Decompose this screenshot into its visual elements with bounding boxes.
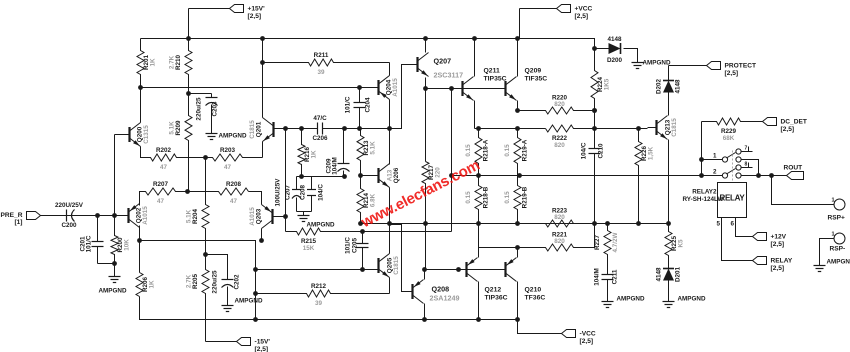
wire driver base row (426, 88, 505, 90)
wire Q206 collector (389, 129, 391, 165)
junction rail129 left end (476, 126, 481, 131)
wire bottom rail -VCC (140, 297, 520, 320)
junction Q209 collector (515, 36, 520, 41)
svg-text:Q206: Q206 (393, 167, 400, 183)
ground AMPGND input (109, 264, 121, 283)
svg-text:R203: R203 (220, 147, 236, 154)
wire Q209 emitter (517, 101, 519, 111)
wire +15V to rail (189, 8, 230, 10)
wire R211 to Q204 (389, 63, 391, 75)
resistor R226 1.5K (635, 129, 655, 224)
transistor Q209 TIF35C (506, 77, 517, 101)
svg-text:220u/25: 220u/25 (212, 270, 219, 294)
wire Q208 collector (424, 270, 426, 280)
junction R212 left (253, 291, 258, 296)
junction RSP+ branch (769, 173, 774, 178)
port flag PRE_R (1, 212, 41, 227)
resistor R218-B 0.15 (465, 176, 490, 224)
svg-text:6.8K: 6.8K (370, 193, 377, 207)
resistor R208 47 (188, 181, 249, 205)
svg-text:-15V': -15V' (255, 339, 271, 346)
wire R221 riser (594, 224, 596, 248)
wire C200 to bases (74, 215, 128, 217)
svg-text:0.15: 0.15 (465, 191, 472, 204)
junction C210 top (592, 126, 597, 131)
junction C209 bottom (342, 174, 347, 179)
wire rail223 (361, 223, 669, 225)
junction C203 stub (186, 91, 191, 96)
wire cap block bottom (297, 211, 312, 213)
relay contact set 2 (702, 162, 753, 179)
resistor R213 5.1K (357, 129, 377, 169)
capacitor C200 220U/25V (55, 202, 84, 229)
transistor Q202 A1015 (129, 204, 150, 228)
wire Q211 collector (474, 39, 476, 77)
svg-text:[2,5]: [2,5] (771, 241, 785, 248)
svg-text:C1815: C1815 (393, 256, 400, 275)
junction R219A top (515, 126, 520, 131)
svg-text:0.15: 0.15 (465, 144, 472, 157)
svg-text:C202: C202 (234, 274, 241, 290)
junction R227 top (605, 221, 610, 226)
svg-text:Q209: Q209 (525, 68, 542, 75)
svg-text:TF36C: TF36C (525, 295, 546, 302)
port flag ROUT (784, 165, 804, 180)
wire feedback rail left (140, 241, 256, 320)
svg-text:C200: C200 (61, 222, 77, 229)
resistor R205 (186, 255, 210, 342)
junction R220 right (592, 108, 597, 113)
svg-text:+12V: +12V (771, 234, 787, 241)
svg-text:2.7K: 2.7K (169, 55, 176, 69)
wire Q208 base link (390, 225, 412, 292)
svg-text:[1]: [1] (14, 219, 22, 226)
power flag DC_DET (763, 118, 807, 134)
wire Q209 collector (517, 39, 519, 77)
capacitor C201 101/C (80, 216, 104, 264)
svg-text:4148: 4148 (607, 36, 622, 43)
resistor R222 820 (546, 125, 595, 149)
transistor Q207 2SC3117 (418, 53, 429, 77)
capacitor C210 104/C (581, 130, 605, 166)
svg-text:C203: C203 (212, 101, 219, 117)
svg-text:47/C: 47/C (313, 115, 327, 122)
svg-text:AMPGND: AMPGND (235, 298, 263, 305)
svg-text:DC_DET: DC_DET (781, 119, 807, 126)
svg-text:4.7/2W: 4.7/2W (612, 232, 619, 252)
svg-text:R212: R212 (311, 283, 327, 290)
svg-text:820: 820 (554, 214, 565, 221)
wire Q208 emitter (424, 304, 426, 320)
svg-text:104/M: 104/M (332, 157, 339, 175)
junction R216 top (299, 126, 304, 131)
transistor Q211 TIP35C (463, 77, 474, 101)
wire C201/R200 bottoms (98, 263, 115, 265)
junction rail -VCC Q212 (476, 317, 481, 322)
resistor R219-B 0.15 (504, 176, 529, 224)
svg-text:220u/25: 220u/25 (196, 97, 203, 121)
svg-text:101/C: 101/C (345, 237, 352, 254)
svg-text:RSP+: RSP+ (828, 215, 846, 222)
wire +VCC stub (520, 8, 557, 10)
svg-text:2: 2 (713, 169, 717, 176)
wire Q200 base column (114, 135, 116, 216)
junction R220 row (515, 108, 520, 113)
wire contact1 out (741, 160, 759, 176)
transistor Q204 A1015 (379, 76, 400, 100)
svg-text:R202: R202 (156, 147, 172, 154)
svg-text:RELAY: RELAY (771, 258, 793, 265)
junction row270 jog (253, 267, 258, 272)
power flag +VCC (557, 5, 593, 21)
wire input signal (41, 215, 128, 217)
junction rail -VCC Q208 (422, 317, 427, 322)
svg-text:7: 7 (745, 146, 748, 152)
wire Q200 collector (140, 88, 142, 123)
wire switch common column (701, 122, 703, 176)
svg-text:RY-SH-124LW: RY-SH-124LW (682, 196, 723, 203)
svg-text:8: 8 (745, 162, 748, 168)
svg-text:AMPGND: AMPGND (617, 296, 645, 303)
svg-text:R204: R204 (192, 208, 199, 224)
svg-text:R210: R210 (175, 54, 182, 70)
junction diff emitters (203, 155, 208, 160)
ground AMPGND D201 (663, 298, 675, 308)
svg-text:R219-B: R219-B (522, 186, 529, 208)
svg-text:[2,5]: [2,5] (771, 265, 785, 272)
svg-text:+15V': +15V' (248, 6, 266, 13)
wire C210 bottom (594, 166, 596, 224)
junction R225 top (666, 221, 671, 226)
wire q213 c (668, 114, 670, 116)
transistor Q205 C1815 (379, 254, 401, 278)
svg-text:104/C: 104/C (318, 184, 325, 201)
junction base row (456, 267, 461, 272)
junction Q203 emitter (259, 238, 264, 243)
svg-text:A1015: A1015 (142, 206, 149, 225)
power flag +12V (753, 233, 787, 249)
junction R217-bottom link (422, 267, 427, 272)
svg-text:820: 820 (554, 142, 565, 149)
svg-text:[2,5]: [2,5] (781, 126, 795, 133)
svg-text:D200: D200 (607, 57, 623, 64)
resistor R224 1K5 (591, 49, 611, 111)
wire Q207 collector (425, 39, 427, 53)
svg-text:RSP-: RSP- (830, 246, 846, 253)
svg-text:Q208: Q208 (432, 285, 450, 294)
wire tail column upper (205, 158, 207, 205)
wire relay pin6 (736, 218, 753, 237)
junction base row left (423, 86, 428, 91)
junction feedback rail176 (449, 173, 454, 178)
svg-text:RELAY2: RELAY2 (692, 189, 717, 196)
capacitor C204 101/C (345, 88, 372, 129)
resistor R225 1K5 (665, 224, 685, 269)
junction Q206 base node (358, 173, 363, 178)
svg-text:R215: R215 (301, 238, 317, 245)
junction R219 col (517, 173, 522, 178)
svg-text:C205: C205 (352, 237, 359, 253)
connector RSP+ (828, 198, 846, 222)
wire input to C200 (41, 215, 67, 217)
svg-text:D202: D202 (656, 78, 663, 94)
svg-text:C211: C211 (612, 269, 619, 284)
wire R220 to rail129 (594, 111, 596, 130)
power flag +15V (230, 5, 266, 21)
resistor R211 39 (263, 52, 390, 76)
svg-text:5.1K: 5.1K (169, 121, 176, 135)
svg-text:TIF35C: TIF35C (525, 76, 548, 83)
transistor Q203 A1015 (249, 205, 273, 229)
svg-text:C1315: C1315 (143, 125, 150, 144)
junction switch row1 (699, 157, 704, 162)
wire Q207 emitter column (425, 78, 427, 162)
transistor Q210 TF36C (506, 258, 517, 282)
resistor R221 820 (479, 232, 595, 252)
svg-text:[2,5]: [2,5] (725, 70, 739, 77)
resistor R214 6.8K (357, 184, 377, 224)
svg-text:C1815: C1815 (249, 120, 256, 139)
resistor R200 (111, 216, 131, 264)
wire output stub left (297, 176, 345, 178)
junction C204 top (357, 85, 362, 90)
wire top rail +VCC/+15V (141, 39, 609, 49)
svg-text:+VCC: +VCC (575, 6, 593, 13)
wire Q210 collector (517, 248, 519, 258)
wire Q212 collector (478, 248, 480, 258)
resistor R209 (169, 88, 193, 192)
resistor R220 820 (518, 95, 595, 115)
wire mid rail left-a (275, 128, 312, 130)
svg-text:820: 820 (554, 101, 565, 108)
wire D202 to Q213 (668, 93, 670, 114)
svg-text:101/C: 101/C (86, 235, 93, 252)
svg-text:R208: R208 (226, 181, 242, 188)
capacitor C205 101/C (345, 232, 369, 270)
junction rail -VCC col (253, 317, 258, 322)
wire output rail (452, 175, 702, 177)
ground AMPGND RSP- (814, 263, 826, 272)
junction C201 tap (95, 213, 100, 218)
wire Q213 base (648, 127, 657, 129)
power flag PROTECT (707, 62, 757, 78)
wire Q206 emitter (389, 188, 391, 225)
wire relay pin5 (722, 218, 753, 261)
wire PROTECT (669, 65, 707, 67)
svg-text:R218-B: R218-B (483, 186, 490, 208)
junction R218 col (476, 173, 481, 178)
wire D202 top (668, 66, 670, 81)
resistor R203 47 (206, 147, 263, 171)
wire RSP- to ground (820, 239, 834, 263)
wire R208 to Q203 collector (249, 192, 262, 205)
svg-text:1K5: 1K5 (604, 78, 611, 90)
svg-text:C206: C206 (312, 135, 328, 142)
ground AMPGND C203 (206, 131, 218, 140)
junction R218B bottom (476, 221, 481, 226)
transistor Q200 C1315 (130, 123, 151, 147)
wire Q200 emitter to R202 (141, 147, 147, 158)
svg-text:C208: C208 (300, 184, 307, 200)
svg-text:5.1K: 5.1K (186, 209, 193, 223)
wire Q206 base (361, 175, 379, 177)
transistor Q206 (379, 164, 390, 188)
wire rail2 feedback-top (141, 87, 378, 89)
junction C202 feed (203, 252, 208, 257)
svg-text:-VCC: -VCC (580, 331, 596, 338)
wire Q202 collector to R206 (139, 226, 141, 273)
capacitor C208 104/C (300, 177, 325, 212)
transistor Q213 C1815 (657, 116, 679, 140)
junction R224 top (592, 46, 597, 51)
junction R210 top (186, 36, 191, 41)
svg-text:0.15: 0.15 (504, 191, 511, 204)
junction feedback rail left end (137, 238, 142, 243)
junction R224 bottom (592, 108, 597, 113)
wire Q203 base lead (274, 216, 286, 218)
svg-text:C210: C210 (598, 143, 605, 159)
junction Q205 base (360, 267, 365, 272)
junction R200 tap (112, 213, 117, 218)
svg-text:0.15: 0.15 (504, 144, 511, 157)
wire to -15V flag (206, 341, 237, 343)
junction rail1 Q201 (260, 36, 265, 41)
diode D200 4148 (607, 36, 623, 64)
svg-text:A1015: A1015 (249, 207, 256, 226)
junction R226 top (636, 126, 641, 131)
junction switch common low (699, 173, 704, 178)
junction rail -VCC Q210 (515, 317, 520, 322)
resistor R212 39 (256, 283, 390, 307)
svg-text:Q203: Q203 (256, 208, 263, 224)
wire +VCC drop (519, 9, 521, 39)
svg-text:AMPGND: AMPGND (827, 259, 850, 266)
wire D201 to ground (668, 281, 670, 298)
svg-text:47: 47 (230, 198, 238, 205)
wire Q213 emitter column (668, 140, 670, 224)
wire to RSP+ (772, 176, 834, 205)
svg-text:1,5K: 1,5K (648, 146, 655, 160)
wire Q200 base lead (115, 134, 129, 136)
svg-text:47: 47 (224, 164, 232, 171)
svg-text:AMPGND: AMPGND (643, 60, 671, 67)
wire Q204 emitter down (389, 100, 391, 129)
wire Q203 base column (285, 129, 287, 232)
resistor R215 15K (286, 228, 452, 252)
svg-text:D201: D201 (675, 266, 682, 282)
svg-text:TIP35C: TIP35C (484, 76, 507, 83)
junction R226 bottom (636, 221, 641, 226)
relay RELAY2 RY-SH-124LW (682, 183, 746, 228)
junction Q203 base column (283, 126, 288, 131)
junction C209 top (342, 126, 347, 131)
junction Q204 emitter (387, 126, 392, 131)
wire to C203 (189, 93, 212, 95)
svg-text:[2,5]: [2,5] (580, 338, 594, 345)
wire R203 to Q201 emitter (262, 142, 264, 158)
junction R209 bottom (185, 189, 190, 194)
diode D201 4148 (656, 266, 682, 282)
wire D200 cathode (624, 49, 638, 57)
junction Q205 collector (387, 221, 392, 226)
svg-text:R222: R222 (552, 135, 568, 142)
junction R201 bottom (138, 85, 143, 90)
junction R219B bottom (515, 221, 520, 226)
resistor R201 (137, 39, 157, 88)
diode D202 4148 (656, 78, 682, 94)
ground AMPGND protect (632, 57, 644, 69)
svg-text:AMPGND: AMPGND (678, 296, 706, 303)
wire R217 bottom column (425, 224, 427, 270)
svg-text:2SC3117: 2SC3117 (434, 71, 464, 80)
svg-text:6: 6 (730, 221, 734, 228)
resistor R223 820 (518, 208, 595, 228)
transistor Q212 TIP36C (467, 258, 478, 282)
svg-text:PROTECT: PROTECT (725, 63, 757, 70)
svg-text:39: 39 (317, 69, 325, 76)
wire Q205 collector up (389, 225, 391, 254)
svg-text:Q201: Q201 (256, 121, 263, 137)
svg-text:15K: 15K (303, 245, 315, 252)
junction Q203 base (283, 214, 288, 219)
svg-text:104/C: 104/C (581, 142, 588, 159)
junction C204 bottom (357, 126, 362, 131)
wire +15V drop (188, 9, 190, 39)
power flag RELAY (753, 257, 793, 273)
svg-text:R205: R205 (192, 273, 199, 289)
wire Q202 emitter to R207 (140, 192, 146, 206)
wire rail223 left part (479, 223, 518, 225)
resistor R207 47 (140, 181, 188, 205)
svg-text:[2,5]: [2,5] (575, 13, 589, 20)
wire output base row (425, 269, 505, 271)
svg-text:1: 1 (832, 232, 835, 238)
capacitor C207 100U/25V (275, 177, 302, 212)
capacitor C203 220u/25 (196, 94, 219, 131)
svg-text:C204: C204 (365, 97, 372, 113)
transistor Q201 C1815 (249, 118, 274, 142)
svg-text:R209: R209 (175, 120, 182, 136)
wire R218B to Q212 col (478, 224, 480, 248)
wire base row270 left (256, 269, 378, 271)
svg-text:4148: 4148 (675, 79, 682, 94)
junction Q207 collector (423, 36, 428, 41)
capacitor C211 104/M (594, 267, 619, 298)
resistor R227 4.7/2W (594, 224, 619, 267)
svg-text:1K: 1K (311, 150, 318, 159)
capacitor C202 220u/25 (212, 270, 241, 304)
svg-text:[2,5]: [2,5] (248, 13, 262, 20)
svg-text:101/C: 101/C (345, 96, 352, 113)
wire to -VCC flag (518, 320, 562, 334)
transistor Q208 2SA1249 (413, 280, 424, 304)
power flag -VCC (562, 330, 596, 346)
wire rail129 b (595, 128, 648, 130)
svg-text:TIP36C: TIP36C (485, 295, 508, 302)
svg-text:2.7K: 2.7K (186, 274, 193, 288)
wire Q212 emitter (478, 282, 480, 320)
junction R221 riser (592, 221, 597, 226)
resistor R210 (169, 39, 193, 88)
capacitor C206 47/C (312, 115, 329, 142)
junction Q211 collector (472, 36, 477, 41)
svg-text:4148: 4148 (656, 267, 663, 282)
svg-text:AMPGND: AMPGND (307, 222, 335, 229)
resistor R229 68K (702, 118, 763, 142)
wire rail129 a (475, 128, 546, 130)
svg-text:Q212: Q212 (485, 287, 502, 294)
wire C202 feed (206, 255, 228, 278)
